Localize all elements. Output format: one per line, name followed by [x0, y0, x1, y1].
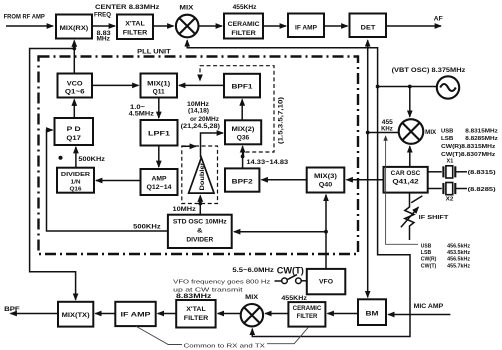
svg-text:(21,24.5,28): (21,24.5,28) [181, 124, 220, 130]
wire VCO branch to MIX(TX) [30, 49, 76, 300]
wire BPF2 to MIX(2) [242, 146, 244, 168]
svg-text:MIX(2): MIX(2) [232, 126, 255, 133]
wire BPF1 to MIX(1) [179, 84, 224, 86]
svg-text:455: 455 [382, 120, 394, 126]
box IF AMP (top) [288, 14, 324, 38]
svg-text:CW(T): CW(T) [277, 265, 304, 275]
svg-text:X'TAL: X'TAL [125, 21, 145, 28]
box DIVIDER 1/N Q16 [57, 168, 94, 193]
svg-text:DIVIDER: DIVIDER [61, 172, 91, 178]
box VFO [307, 269, 346, 294]
dashed band select path [200, 66, 274, 155]
junction dot vfo branch [324, 230, 328, 234]
box X'TAL FILTER (tx) [176, 300, 215, 328]
svg-text:10MHz: 10MHz [187, 102, 209, 108]
box BM [358, 299, 386, 325]
svg-text:LSB: LSB [421, 250, 432, 256]
wire X'TAL FILTER to mix circle [153, 25, 174, 27]
box BPF1 [224, 74, 260, 98]
svg-text:500KHz: 500KHz [78, 157, 105, 163]
box CERAMIC FILTER (top) [224, 14, 263, 39]
svg-text:FILTER: FILTER [297, 313, 318, 320]
doubler dashed box [182, 146, 218, 204]
svg-text:1/N: 1/N [71, 179, 81, 185]
svg-text:8.8285MHz: 8.8285MHz [465, 136, 498, 142]
svg-text:AF: AF [434, 16, 443, 23]
carrier freq list bottom [421, 243, 471, 269]
wire tx mixer to X'TAL FILTER [218, 313, 241, 315]
svg-text:14.33~14.83: 14.33~14.83 [246, 160, 289, 166]
svg-text:X'TAL: X'TAL [186, 306, 206, 313]
svg-text:Q36: Q36 [237, 134, 250, 141]
wire VBT OSC output [378, 86, 437, 88]
callout common to RX and TX [136, 326, 182, 344]
doubler select arrow [182, 145, 196, 147]
box MIX(RX) [56, 15, 92, 39]
svg-text:CAR OSC: CAR OSC [391, 170, 421, 177]
svg-text:USB: USB [421, 243, 432, 249]
wire DET to AF output [386, 25, 441, 27]
svg-text:AMP: AMP [152, 175, 168, 182]
svg-text:&: & [197, 228, 203, 234]
svg-text:Q16: Q16 [70, 187, 83, 193]
svg-text:MIX(3): MIX(3) [314, 173, 337, 180]
svg-text:VFO: VFO [319, 278, 333, 285]
svg-text:456.5kHz: 456.5kHz [447, 257, 470, 263]
box CAR OSC [384, 167, 428, 193]
PLL unit dashed border [39, 57, 359, 255]
wire MIX(3) to BPF2 [262, 179, 307, 181]
carrier freq list top [441, 128, 498, 158]
switch CW(T) [275, 275, 307, 284]
wire CERAMIC FILTER to tx mixer [265, 313, 288, 315]
svg-text:Q40: Q40 [319, 182, 333, 189]
wire doubler to MIX(2) [201, 133, 224, 158]
svg-text:VFO frequency goes 800 Hz: VFO frequency goes 800 Hz [173, 279, 270, 285]
box MIX(TX) [58, 302, 93, 327]
svg-text:CW(T): CW(T) [421, 263, 437, 269]
svg-text:(14,18): (14,18) [188, 108, 209, 114]
box X'TAL FILTER (top) [117, 15, 153, 40]
svg-text:MIX(TX): MIX(TX) [62, 312, 90, 319]
wire LPF1 to AMP [158, 146, 160, 168]
svg-text:Q17: Q17 [66, 135, 81, 142]
junction dot 10MHz [198, 202, 202, 206]
svg-text:BPF2: BPF2 [232, 178, 253, 185]
box MIX(2) Q36 [225, 120, 261, 144]
box STD OSC 10MHz & DIVIDER [168, 215, 232, 248]
svg-text:LSB: LSB [441, 136, 453, 142]
svg-text:MHz: MHz [97, 36, 110, 42]
svg-text:LPF1: LPF1 [148, 130, 170, 137]
svg-text:MIC AMP: MIC AMP [414, 304, 444, 310]
svg-text:455KHz: 455KHz [233, 5, 257, 11]
svg-text:Q1~6: Q1~6 [65, 89, 85, 96]
wire IF AMP to MIX(TX) [95, 313, 115, 315]
wire VCO to MIX(RX) [73, 41, 75, 74]
svg-text:(VBT OSC) 8.375MHz: (VBT OSC) 8.375MHz [392, 68, 466, 74]
svg-text:455KHz: 455KHz [281, 296, 307, 302]
doubler triangle [189, 158, 214, 194]
svg-text:FILTER: FILTER [231, 30, 256, 37]
wire VFO to MIX(3) [325, 195, 327, 269]
wire VBT to tx mixer (around right) [252, 87, 410, 337]
crystal X2 [428, 183, 496, 203]
wire MIX(2) to BPF1 [241, 99, 243, 120]
wire MIX(1) to LPF1 [158, 98, 160, 119]
IF SHIFT variable element [401, 193, 449, 240]
wire DIVIDER to PD [75, 147, 77, 168]
svg-text:8.83MHz: 8.83MHz [176, 294, 211, 300]
svg-text:FILTER: FILTER [184, 315, 209, 322]
wire from rf amp into MIX(RX) [6, 25, 53, 27]
oscillator VBT OSC [437, 76, 459, 98]
svg-text:CW(T)8.8307MHz: CW(T)8.8307MHz [441, 152, 496, 158]
wire BM to CERAMIC FILTER [328, 313, 359, 315]
box P D Q17 [55, 118, 94, 145]
svg-text:Common to RX and TX: Common to RX and TX [184, 344, 265, 350]
wire CAR OSC to carrier mixer [409, 146, 411, 167]
wire VBT injection to rx 2nd mixer [187, 40, 377, 86]
svg-text:(8.8285): (8.8285) [468, 187, 496, 193]
svg-text:(1.5,3.5,7,10): (1.5,3.5,7,10) [279, 97, 285, 144]
box IF AMP (tx) [115, 302, 155, 326]
wire PD to VCO [73, 100, 75, 119]
callout leader to 455 node [386, 136, 418, 244]
svg-text:FROM RF AMP: FROM RF AMP [4, 14, 45, 20]
svg-text:MIX: MIX [179, 5, 193, 11]
svg-text:P D: P D [67, 126, 81, 133]
box CERAMIC FILTER (tx) [288, 302, 325, 327]
junction dot carrier node [366, 131, 370, 135]
box VCO [58, 74, 93, 98]
svg-text:up at CW transmit: up at CW transmit [173, 288, 243, 294]
wire STD OSC to doubler [199, 196, 201, 215]
svg-text:Q41,42: Q41,42 [392, 179, 419, 186]
svg-text:10MHz: 10MHz [173, 207, 196, 213]
svg-text:BPF: BPF [4, 306, 20, 313]
wire CERAMIC FILTER to IF AMP [263, 25, 286, 27]
svg-text:X1: X1 [447, 159, 454, 165]
svg-text:MIX: MIX [245, 295, 258, 301]
junction dot vco branch [72, 47, 76, 51]
svg-text:MIX: MIX [425, 130, 436, 136]
svg-text:PLL UNIT: PLL UNIT [137, 49, 171, 55]
svg-text:MIX(RX): MIX(RX) [60, 25, 89, 32]
svg-text:CW(R)8.8315MHz: CW(R)8.8315MHz [441, 144, 496, 150]
svg-text:Doubler: Doubler [200, 162, 206, 191]
wire MIX(RX) to X'TAL FILTER [92, 25, 115, 27]
svg-text:456.5kHz: 456.5kHz [447, 243, 470, 249]
svg-text:STD OSC 10MHz: STD OSC 10MHz [173, 220, 227, 226]
svg-text:BM: BM [366, 311, 379, 318]
svg-text:IF SHIFT: IF SHIFT [419, 215, 449, 221]
box DET [350, 14, 387, 38]
svg-text:Q12~14: Q12~14 [147, 184, 172, 191]
box MIX(3) Q40 [307, 168, 345, 193]
junction dot band node [241, 155, 245, 159]
svg-text:Q11: Q11 [153, 89, 165, 96]
wire carrier to DET [367, 40, 369, 132]
svg-text:5.5~6.0MHz: 5.5~6.0MHz [232, 268, 274, 274]
wire IF AMP to DET [324, 25, 348, 27]
svg-text:CERAMIC: CERAMIC [293, 305, 322, 312]
mixer circle MIX (rx 2nd) [176, 15, 199, 38]
svg-text:1.0~: 1.0~ [130, 105, 146, 111]
svg-text:KHz: KHz [381, 127, 393, 133]
box LPF1 [141, 120, 178, 146]
box AMP Q12~14 [141, 169, 178, 195]
wire STD OSC 500kHz to PD [47, 130, 168, 231]
svg-text:455.7kHz: 455.7kHz [447, 263, 470, 269]
svg-text:4.5MHz: 4.5MHz [129, 111, 154, 117]
junction dot on VBT line [376, 85, 380, 89]
wire MIX(TX) to BPF out [11, 313, 59, 315]
svg-text:IF AMP: IF AMP [295, 24, 317, 31]
wire carrier to BM [367, 133, 369, 298]
wire MIC AMP to BM [388, 314, 450, 316]
svg-text:IF AMP: IF AMP [121, 311, 152, 318]
svg-text:8.8315MHz: 8.8315MHz [465, 128, 498, 134]
svg-text:MIX(1): MIX(1) [147, 80, 170, 87]
svg-text:DET: DET [361, 24, 376, 31]
mixer circle MIX (tx) [241, 304, 263, 326]
wire CAR OSC to MIX(3) [347, 179, 384, 181]
svg-text:CW(R): CW(R) [421, 257, 437, 263]
svg-text:CERAMIC: CERAMIC [228, 21, 260, 28]
svg-text:DIVIDER: DIVIDER [186, 238, 214, 244]
svg-text:FREQ: FREQ [94, 12, 111, 18]
wire VBT to carrier mixer [409, 87, 411, 117]
svg-text:USB: USB [441, 128, 453, 134]
wire mix circle to CERAMIC FILTER [199, 25, 222, 27]
svg-text:FILTER: FILTER [123, 30, 148, 37]
wire VFO branch to STD OSC [234, 231, 326, 233]
wire AMP to DIVIDER [96, 180, 141, 182]
svg-text:VCO: VCO [67, 80, 83, 87]
crystal X1 [428, 159, 496, 178]
bullet dot [59, 156, 63, 160]
svg-text:500KHz: 500KHz [133, 225, 161, 231]
wire X'TAL FILTER to IF AMP [158, 313, 177, 315]
svg-text:BPF1: BPF1 [232, 84, 253, 91]
box BPF2 [225, 168, 259, 191]
box MIX(1) Q11 [141, 74, 178, 98]
svg-text:453.5kHz: 453.5kHz [447, 250, 470, 256]
junction dot [408, 85, 412, 89]
svg-text:CENTER 8.83MHz: CENTER 8.83MHz [95, 5, 159, 11]
svg-text:(8.8315): (8.8315) [468, 170, 496, 176]
svg-text:or 20MHz: or 20MHz [190, 117, 219, 123]
wire carrier mixer output 455kHz [368, 132, 399, 134]
mixer circle MIX (carrier 455) [399, 119, 424, 144]
wire VCO to MIX(1) [92, 84, 139, 86]
svg-text:X2: X2 [446, 196, 454, 202]
